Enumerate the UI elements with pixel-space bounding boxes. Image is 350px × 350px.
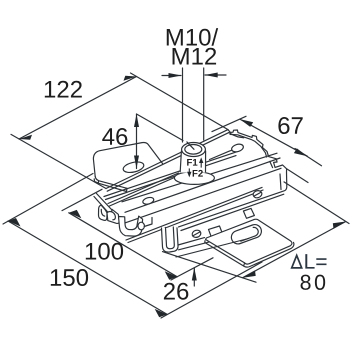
band front edge left <box>108 173 179 204</box>
dim 46 line <box>136 114 138 169</box>
dim 150 line <box>8 221 167 314</box>
screw right <box>252 190 263 199</box>
wire 150 extension right <box>161 262 262 318</box>
label 100 <box>86 243 123 260</box>
hole top-left <box>142 196 154 205</box>
arrowhead M12 right (points left) <box>205 73 218 78</box>
boss top outer ellipse <box>182 143 206 157</box>
wire 67 extension lower <box>295 149 322 166</box>
arrowhead 100 left <box>69 210 82 218</box>
slot inner wall <box>241 227 258 241</box>
label 122 <box>45 81 82 98</box>
dim 67 line <box>240 119 307 156</box>
mid tab 1 <box>209 226 223 238</box>
dim 100 line <box>69 213 177 277</box>
arrowhead dL80 upper-right <box>333 222 346 229</box>
label 80 <box>301 275 326 290</box>
mid tab 2 <box>243 208 254 218</box>
left plate bottom edge <box>95 177 127 189</box>
F2 arrow down <box>188 168 190 172</box>
wire 100 extension right <box>171 258 213 280</box>
label L= <box>305 254 326 268</box>
boss cylinder <box>180 149 205 173</box>
arrowhead dL80 lower-left <box>243 271 256 278</box>
arrowhead 150 left <box>8 218 21 227</box>
left end cut edge pair <box>97 194 119 218</box>
wire 122 extension left <box>11 134 106 188</box>
wire dL extension upper <box>284 182 349 224</box>
rail base back silhouette edge <box>104 151 240 197</box>
front-bottom edge thickness twin <box>181 194 284 230</box>
wire reference into slot center <box>176 239 249 258</box>
wire 46 reference to boss center <box>137 114 184 141</box>
dim 26 line <box>193 268 195 286</box>
band front edge right <box>210 147 241 160</box>
hole top-right <box>231 143 245 153</box>
label M10/ <box>167 28 218 46</box>
arrowhead 67 lower <box>294 148 307 156</box>
labels as outlines <box>45 28 327 300</box>
wire 122 extension right <box>131 73 229 130</box>
wire 150 extension left <box>3 174 93 225</box>
right plate thickness bottom <box>244 242 294 267</box>
band right end cap <box>179 130 287 227</box>
band right end cap front <box>229 133 244 138</box>
arrowhead 46 up <box>134 114 139 127</box>
right end inner silhouette <box>230 134 267 157</box>
apron line D pair <box>126 187 262 240</box>
left plate oval hole <box>122 160 145 174</box>
label 46 <box>102 128 127 145</box>
saddle inner circle <box>138 222 144 230</box>
arrowhead 26 up <box>192 268 197 281</box>
label M12 <box>173 48 217 65</box>
wire 100 extension left <box>62 189 102 210</box>
part body <box>93 130 294 268</box>
wire extension from end corner <box>287 169 308 183</box>
label triangle <box>292 255 302 268</box>
connector to tall tab <box>144 218 152 227</box>
apron line B0 <box>122 153 277 202</box>
arrowhead M10 left (points right) <box>169 73 182 78</box>
arrowhead 122 left <box>19 135 32 140</box>
bottom lip edge to right plate <box>178 238 205 245</box>
label 67 <box>278 117 302 134</box>
hook clip 1 <box>99 205 120 223</box>
F1 arrow up <box>187 157 203 177</box>
arrowhead 46 down <box>134 156 139 169</box>
arrowhead 150 right <box>155 309 168 317</box>
screw middle <box>191 229 202 238</box>
label 150 <box>51 269 88 286</box>
right plate <box>206 219 292 264</box>
dim M10/M12 extension lines <box>182 68 184 142</box>
boss flange <box>174 172 214 185</box>
tall tab <box>162 228 179 252</box>
hook clip 2 <box>107 209 119 223</box>
dim dL80 line <box>243 222 346 278</box>
dim 122 line <box>19 77 137 140</box>
left plate thickness <box>94 179 98 183</box>
right plate oval slot <box>231 225 261 244</box>
wire 67 extension upper <box>212 116 246 131</box>
apron line C <box>122 168 281 224</box>
label F1 <box>187 159 197 166</box>
apron line B <box>125 158 280 212</box>
boss hole diagonal <box>187 142 194 149</box>
left plate top face <box>93 142 162 176</box>
saddle U-hook <box>119 216 143 236</box>
wire dL extension lower <box>163 252 257 283</box>
rail base back chamfer <box>106 156 237 200</box>
boss top inner ellipse <box>185 145 202 155</box>
arrowhead 67 upper <box>240 119 253 127</box>
arrowhead 100 right <box>165 271 178 279</box>
label 26 <box>164 283 188 300</box>
band back edge <box>106 130 228 189</box>
right plate thickness left <box>205 241 245 266</box>
label F2 <box>193 170 203 177</box>
band back chamfer <box>107 133 229 192</box>
arrowhead 122 right <box>124 76 137 81</box>
